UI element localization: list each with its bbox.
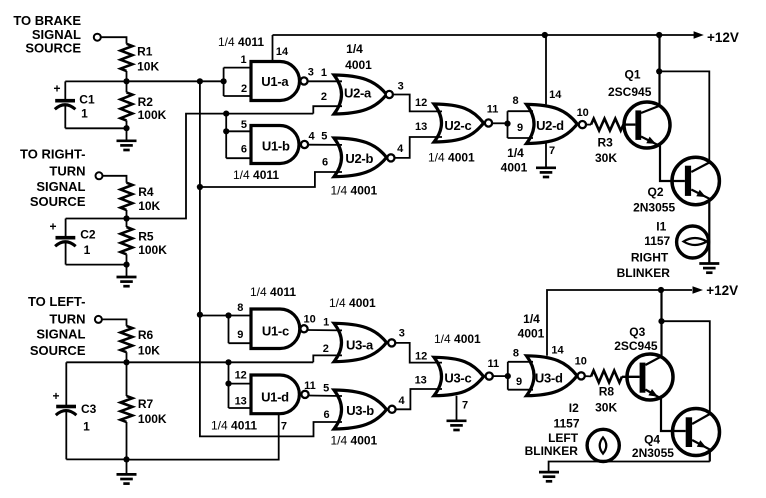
resistor R6 bbox=[121, 326, 133, 352]
svg-text:+12V: +12V bbox=[707, 30, 739, 45]
svg-text:3: 3 bbox=[308, 67, 314, 79]
label 1/4 4001 above U3-a bbox=[329, 296, 376, 310]
bubble U2-c output bbox=[485, 119, 492, 126]
wire U1-c out to U3-a bbox=[308, 329, 342, 331]
label R8 30K bbox=[595, 384, 617, 414]
lamp I1 right blinker bbox=[677, 226, 709, 258]
resistor R4 bbox=[121, 183, 133, 210]
nor gate U3-c bbox=[434, 357, 484, 395]
svg-text:14: 14 bbox=[276, 46, 289, 58]
svg-text:U2-b: U2-b bbox=[345, 151, 373, 166]
wire U3-d pin14 riser and rail bbox=[547, 290, 692, 356]
wire R5 bottom to ground bbox=[126, 254, 128, 277]
label 1/4 4011 for U1-d bbox=[211, 418, 257, 432]
lamp I2 left blinker bbox=[587, 429, 619, 461]
svg-text:5: 5 bbox=[241, 119, 247, 131]
label U3-c bbox=[444, 371, 471, 386]
node R2-C1 junction bbox=[123, 125, 129, 131]
svg-text:30K: 30K bbox=[595, 151, 617, 165]
label U3-d bbox=[535, 370, 563, 385]
label U2-a pin1 bbox=[321, 67, 327, 79]
wire brake to U2-b pin6 bbox=[200, 172, 342, 187]
wire brake terminal to R1 bbox=[101, 37, 127, 44]
svg-text:6: 6 bbox=[241, 143, 247, 155]
svg-text:12: 12 bbox=[415, 350, 427, 362]
wire U2-d out to R3 bbox=[586, 124, 591, 126]
svg-text:7: 7 bbox=[462, 399, 468, 411]
wire R2 bottom to ground bbox=[126, 121, 128, 142]
resistor R2 bbox=[121, 92, 133, 120]
ground below R2 bbox=[117, 141, 137, 150]
label U1-b pin5 bbox=[241, 119, 247, 131]
terminal brake input bbox=[94, 34, 101, 41]
svg-text:8: 8 bbox=[237, 302, 243, 314]
wire U3-c out to U3-d bbox=[493, 375, 508, 377]
bubble U3-c output bbox=[486, 373, 493, 380]
wire R1 to R2 bbox=[126, 71, 128, 92]
wire Q4 collector diag bbox=[692, 414, 710, 424]
label U1-a bbox=[261, 74, 289, 89]
svg-text:1: 1 bbox=[83, 420, 90, 434]
bubble U1-c output bbox=[300, 325, 307, 332]
svg-text:4001: 4001 bbox=[345, 58, 372, 72]
svg-text:I2: I2 bbox=[569, 401, 579, 415]
label 1/4 above U3-d bbox=[523, 312, 540, 326]
resistor R5 bbox=[121, 227, 133, 254]
arrow top +12V bbox=[694, 31, 704, 39]
node U1-d feed on left-turn net bbox=[225, 359, 231, 365]
svg-text:10K: 10K bbox=[138, 199, 160, 213]
ground below Q2 emitter bbox=[699, 264, 719, 273]
svg-text:BLINKER: BLINKER bbox=[525, 444, 579, 458]
svg-text:2: 2 bbox=[321, 91, 327, 103]
label U1-a pin2 bbox=[241, 83, 247, 95]
svg-text:6: 6 bbox=[322, 157, 328, 169]
wire C1 bottom to junction bbox=[65, 127, 126, 129]
svg-text:1: 1 bbox=[323, 317, 329, 329]
wire U3-b out to U3-c pin13 bbox=[396, 389, 442, 409]
label U3-c pin7 bbox=[462, 399, 468, 411]
svg-text:100K: 100K bbox=[138, 243, 167, 257]
svg-text:U1-b: U1-b bbox=[262, 138, 290, 153]
label C2 plus bbox=[50, 219, 57, 233]
svg-text:4001: 4001 bbox=[501, 161, 528, 175]
svg-text:14: 14 bbox=[551, 344, 564, 356]
wire R4 to R5 bbox=[126, 210, 128, 227]
label U1-c bbox=[262, 323, 289, 338]
svg-text:1/4 4011: 1/4 4011 bbox=[233, 168, 279, 182]
wire left-turn net horizontal bbox=[66, 361, 313, 363]
svg-text:1/4 4001: 1/4 4001 bbox=[428, 151, 475, 165]
nor gate U3-a bbox=[334, 323, 387, 361]
bubble U3-b output bbox=[388, 406, 395, 413]
svg-text:U1-a: U1-a bbox=[261, 74, 289, 89]
label U2-b pin4 out bbox=[397, 143, 404, 155]
label U2-c pin11 bbox=[487, 104, 499, 116]
wire emitter to ground I2 bbox=[549, 462, 710, 473]
wire Q2 emitter bbox=[691, 190, 709, 264]
svg-text:+: + bbox=[54, 82, 61, 96]
svg-text:R7: R7 bbox=[138, 397, 154, 411]
svg-text:2SC945: 2SC945 bbox=[614, 339, 658, 353]
resistor R7 bbox=[121, 396, 133, 422]
svg-text:1/4 4011: 1/4 4011 bbox=[211, 418, 257, 432]
svg-text:U3-b: U3-b bbox=[346, 403, 374, 418]
svg-text:U3-d: U3-d bbox=[535, 370, 563, 385]
node R7-C3 junction bbox=[123, 456, 129, 462]
wire collector branch to Q4 bbox=[662, 321, 710, 413]
wire left terminal to R6 bbox=[102, 319, 126, 326]
label R6 10K bbox=[138, 328, 160, 357]
svg-text:12: 12 bbox=[235, 370, 247, 382]
label U3-d pin9 bbox=[516, 376, 522, 388]
label U2-d pin14 bbox=[549, 89, 562, 101]
label U1-b pin6 bbox=[241, 143, 247, 155]
nor gate U2-c bbox=[434, 104, 484, 142]
wire brake net vertical bbox=[200, 81, 342, 436]
svg-text:13: 13 bbox=[415, 375, 427, 387]
svg-text:U2-c: U2-c bbox=[444, 118, 471, 133]
label R3 30K bbox=[595, 136, 617, 165]
resistor R3 bbox=[591, 119, 623, 131]
node U1-b feed on right-turn net bbox=[223, 111, 229, 117]
node Q3 collector branch bbox=[658, 318, 664, 324]
node U1-a input feed bbox=[221, 78, 227, 84]
label U3-a pin1 bbox=[323, 317, 329, 329]
wire C3 bottom to junction bbox=[66, 458, 126, 460]
svg-text:SOURCE: SOURCE bbox=[30, 343, 86, 358]
transistor Q2 bbox=[672, 157, 719, 204]
label U3-b bbox=[346, 403, 374, 418]
wire R7 bottom to ground bbox=[126, 422, 128, 475]
label 1/4 4011 for U1-b bbox=[233, 168, 279, 182]
label U3-d pin8 bbox=[513, 347, 519, 359]
capacitor C2 bbox=[55, 219, 76, 265]
bubble U2-b output bbox=[387, 154, 394, 161]
svg-text:9: 9 bbox=[517, 122, 523, 134]
wire Q1 emitter bbox=[641, 137, 685, 182]
label U2-b bbox=[345, 151, 373, 166]
label U2-c bbox=[444, 118, 471, 133]
wire C2 top to junction bbox=[66, 218, 127, 220]
svg-text:8: 8 bbox=[512, 95, 518, 107]
bubble U3-d output bbox=[578, 372, 585, 379]
label U2-a bbox=[344, 85, 372, 100]
label U2-c pin12 bbox=[415, 97, 427, 109]
label U2-b pin6 bbox=[322, 157, 328, 169]
label U3-c pin12 bbox=[415, 350, 427, 362]
label R1 10K bbox=[137, 45, 159, 74]
arrow Q3 emitter bbox=[648, 389, 658, 397]
svg-text:13: 13 bbox=[235, 395, 247, 407]
wire Q4 emitter bbox=[692, 440, 710, 462]
svg-text:R3: R3 bbox=[598, 136, 614, 150]
svg-text:10: 10 bbox=[575, 356, 587, 368]
nand gate U1-a bbox=[251, 62, 300, 101]
wire U1-d input bracket bbox=[229, 362, 253, 408]
node left divider junction bbox=[123, 359, 129, 365]
label U2-d pin10 bbox=[577, 107, 589, 119]
node rail-Q3 collector bbox=[658, 287, 664, 293]
arrow Q4 emitter bbox=[697, 440, 707, 448]
transistor Q1 bbox=[624, 102, 670, 148]
label R5 100K bbox=[138, 230, 167, 258]
label U1-a pin1 bbox=[240, 54, 246, 66]
svg-text:C2: C2 bbox=[80, 228, 96, 242]
svg-text:1/4 4001: 1/4 4001 bbox=[331, 434, 378, 448]
svg-text:9: 9 bbox=[237, 329, 243, 341]
ground below R7 bbox=[117, 474, 137, 483]
svg-text:C3: C3 bbox=[81, 402, 97, 416]
wire left-turn jog to U3-a pin2 bbox=[313, 355, 342, 362]
svg-text:13: 13 bbox=[415, 121, 427, 133]
svg-text:2: 2 bbox=[323, 343, 329, 355]
nor gate U3-d bbox=[527, 356, 578, 396]
svg-text:U2-d: U2-d bbox=[536, 118, 564, 133]
svg-text:1: 1 bbox=[81, 107, 88, 121]
svg-text:U1-c: U1-c bbox=[262, 323, 289, 338]
svg-text:1/4 4011: 1/4 4011 bbox=[250, 285, 296, 299]
label TO BRAKE SIGNAL SOURCE bbox=[13, 13, 81, 56]
svg-text:10K: 10K bbox=[138, 343, 160, 357]
wire U1-a input bracket bbox=[224, 68, 252, 96]
wire C2 bottom to junction bbox=[66, 264, 127, 266]
svg-text:U2-a: U2-a bbox=[344, 85, 372, 100]
svg-text:R5: R5 bbox=[138, 230, 154, 244]
wire R6 to R7 bbox=[126, 352, 128, 396]
arrow Q1 emitter bbox=[646, 137, 656, 144]
wire U1-b input bracket bbox=[226, 114, 252, 159]
label U3-c pin13 bbox=[415, 375, 427, 387]
resistor R1 bbox=[121, 44, 133, 71]
svg-text:C1: C1 bbox=[79, 92, 95, 106]
node rail-U2d pin14 bbox=[542, 32, 548, 38]
transistor Q3 bbox=[627, 354, 673, 400]
svg-text:SIGNAL: SIGNAL bbox=[36, 327, 85, 342]
label U1-c pin10 bbox=[303, 314, 315, 326]
label U2-d pin9 bbox=[517, 122, 523, 134]
label U3-a bbox=[346, 338, 374, 353]
svg-text:2N3055: 2N3055 bbox=[632, 446, 674, 460]
terminal left-turn input bbox=[95, 316, 102, 323]
label 4001 above U2-a bbox=[345, 58, 372, 72]
label C3 plus bbox=[53, 389, 60, 403]
wire U1-a pin14 to rail bbox=[272, 35, 274, 62]
svg-text:+: + bbox=[50, 219, 57, 233]
label 1/4 4001 below U2-c bbox=[428, 151, 475, 165]
wire U2-d pin14 to rail bbox=[545, 35, 547, 104]
svg-text:1157: 1157 bbox=[554, 417, 580, 431]
nand gate U1-b bbox=[251, 126, 299, 164]
svg-text:Q4: Q4 bbox=[644, 433, 660, 447]
wire U3-c pin7 to ground bbox=[456, 396, 458, 421]
resistor R8 bbox=[591, 371, 622, 383]
svg-text:1: 1 bbox=[240, 54, 246, 66]
svg-text:I1: I1 bbox=[656, 220, 666, 234]
svg-text:2SC945: 2SC945 bbox=[608, 85, 652, 99]
svg-text:+: + bbox=[53, 389, 60, 403]
label U1-c pin8 bbox=[237, 302, 243, 314]
label 1/4 4001 below U3-b bbox=[331, 434, 378, 448]
nand gate U1-d bbox=[251, 375, 299, 414]
label 1/4 4011 for U1-a bbox=[218, 35, 264, 49]
svg-text:TO RIGHT-: TO RIGHT- bbox=[20, 146, 85, 161]
svg-text:1/4 4001: 1/4 4001 bbox=[434, 332, 481, 346]
svg-text:2N3055: 2N3055 bbox=[633, 201, 675, 215]
svg-text:7: 7 bbox=[549, 145, 555, 157]
nor gate U3-b bbox=[334, 390, 387, 429]
svg-text:R4: R4 bbox=[138, 185, 154, 199]
node rail-Q1 collector bbox=[656, 32, 662, 38]
label U1-d pin13 bbox=[235, 395, 247, 407]
wire U3-d input bracket bbox=[508, 362, 533, 390]
label U1-d pin7 bbox=[281, 420, 287, 432]
wire R8 to Q3 base bbox=[622, 376, 640, 378]
label 1/4 above U2-a bbox=[346, 42, 363, 56]
svg-text:Q2: Q2 bbox=[648, 185, 664, 199]
wire U2-d input bracket bbox=[508, 111, 534, 138]
label U1-c pin9 bbox=[237, 329, 243, 341]
svg-text:1: 1 bbox=[84, 243, 91, 257]
svg-text:TURN: TURN bbox=[49, 311, 85, 326]
label U3-b pin5 bbox=[323, 382, 329, 394]
svg-text:SIGNAL: SIGNAL bbox=[32, 27, 81, 42]
node U3-d input feed bbox=[505, 373, 511, 379]
label U1-b pin4 bbox=[309, 130, 316, 142]
svg-text:TURN: TURN bbox=[49, 163, 85, 178]
wire U2-b out to U2-c pin13 bbox=[395, 137, 443, 158]
svg-text:10: 10 bbox=[303, 314, 315, 326]
label U1-d bbox=[261, 389, 289, 404]
svg-text:10K: 10K bbox=[137, 59, 159, 73]
label U3-b pin4 out bbox=[398, 395, 405, 407]
label U2-d pin8 bbox=[512, 95, 518, 107]
svg-text:BLINKER: BLINKER bbox=[617, 266, 671, 280]
svg-text:1/4 4001: 1/4 4001 bbox=[329, 296, 376, 310]
svg-text:11: 11 bbox=[304, 380, 316, 392]
label U1-b bbox=[262, 138, 290, 153]
label I1 1157 RIGHT BLINKER bbox=[617, 220, 671, 280]
bubble U2-d output bbox=[579, 121, 586, 128]
svg-text:4: 4 bbox=[397, 143, 404, 155]
wire U2-c out to U2-d bbox=[492, 122, 507, 124]
wire U1-b out to U2-b bbox=[308, 144, 342, 146]
label Q1 bbox=[608, 67, 652, 98]
label U3-c pin11 bbox=[487, 358, 499, 370]
svg-text:5: 5 bbox=[323, 382, 329, 394]
wire U2-d pin7 to ground bbox=[545, 144, 547, 169]
wire brake net horizontal bbox=[127, 80, 224, 82]
wire Q2 collector diag bbox=[691, 163, 709, 173]
bubble U1-a output bbox=[300, 77, 307, 84]
bubble U1-b output bbox=[301, 141, 308, 148]
svg-text:1/4 4011: 1/4 4011 bbox=[218, 35, 264, 49]
wire Q3 emitter bbox=[645, 390, 685, 432]
label U2-d pin7 bbox=[549, 145, 555, 157]
label Q3 bbox=[614, 325, 658, 353]
node U1-d pin12 junction bbox=[225, 381, 231, 387]
node brake-U1c branch bbox=[197, 312, 203, 318]
svg-text:11: 11 bbox=[487, 358, 499, 370]
ground below U3-c bbox=[447, 421, 467, 430]
svg-text:14: 14 bbox=[549, 89, 562, 101]
label U3-d pin14 bbox=[551, 344, 564, 356]
wire U1-d pin7 to ground wire bbox=[127, 414, 279, 460]
wire R3 to Q1 base bbox=[623, 123, 635, 125]
svg-text:U3-c: U3-c bbox=[444, 371, 471, 386]
svg-text:SIGNAL: SIGNAL bbox=[36, 179, 85, 194]
node brake net top bbox=[197, 78, 203, 84]
svg-text:1/4: 1/4 bbox=[507, 146, 524, 160]
wire U3-a out to U3-c pin12 bbox=[395, 343, 442, 363]
nor gate U2-a bbox=[334, 75, 387, 114]
label TO LEFT-TURN SIGNAL SOURCE bbox=[28, 294, 86, 358]
svg-text:R1: R1 bbox=[137, 45, 153, 59]
label U2-d bbox=[536, 118, 564, 133]
wire brake to U1-c bbox=[200, 315, 229, 317]
svg-text:10: 10 bbox=[577, 107, 589, 119]
wire U1-a out to U2-a bbox=[308, 80, 342, 82]
arrow bottom +12V bbox=[693, 286, 704, 294]
svg-text:3: 3 bbox=[398, 81, 404, 93]
svg-text:100K: 100K bbox=[138, 412, 167, 426]
svg-text:SOURCE: SOURCE bbox=[25, 41, 81, 56]
label 1/4 4011 for U1-c bbox=[250, 285, 296, 299]
label U1-a pin14 bbox=[276, 46, 289, 58]
svg-text:TO BRAKE: TO BRAKE bbox=[13, 13, 81, 28]
svg-text:1/4 4001: 1/4 4001 bbox=[331, 184, 378, 198]
svg-text:11: 11 bbox=[487, 104, 499, 116]
label TO RIGHT-TURN SIGNAL SOURCE bbox=[20, 146, 86, 209]
label C1 value bbox=[79, 92, 95, 120]
svg-text:2: 2 bbox=[241, 83, 247, 95]
capacitor C1 bbox=[55, 81, 76, 128]
label U3-b pin6 bbox=[324, 409, 330, 421]
label R4 10K bbox=[138, 185, 160, 213]
arrow Q2 emitter bbox=[696, 190, 706, 197]
bubble U2-a output bbox=[386, 91, 393, 98]
svg-text:12: 12 bbox=[415, 97, 427, 109]
label U2-a pin2 bbox=[321, 91, 327, 103]
wire U1-c input bracket bbox=[229, 316, 253, 344]
svg-text:6: 6 bbox=[324, 409, 330, 421]
label top +12V bbox=[707, 30, 739, 45]
wire right terminal to R4 bbox=[103, 176, 127, 183]
svg-text:1157: 1157 bbox=[644, 234, 670, 248]
label 1/4 4001 below U2-b bbox=[331, 184, 378, 198]
wire right-turn jog to U2-a pin2 bbox=[313, 106, 342, 113]
svg-text:4: 4 bbox=[309, 130, 316, 142]
bubble U1-d output bbox=[301, 391, 308, 398]
ground below I2 wire bbox=[539, 472, 559, 481]
label U1-a pin3 bbox=[308, 67, 314, 79]
svg-text:4001: 4001 bbox=[518, 327, 545, 341]
label I2 1157 LEFT BLINKER bbox=[525, 401, 580, 458]
svg-text:5: 5 bbox=[321, 131, 327, 143]
svg-text:TO LEFT-: TO LEFT- bbox=[28, 294, 86, 309]
svg-text:SOURCE: SOURCE bbox=[30, 194, 86, 209]
nor gate U2-d bbox=[527, 104, 578, 143]
label R2 100K bbox=[138, 95, 167, 122]
wire Q1 collector bbox=[641, 35, 660, 113]
svg-text:Q1: Q1 bbox=[625, 67, 641, 81]
label Q2 bbox=[633, 185, 675, 214]
svg-text:7: 7 bbox=[281, 420, 287, 432]
svg-text:1/4: 1/4 bbox=[523, 312, 540, 326]
svg-text:4: 4 bbox=[398, 395, 405, 407]
wire Q3 collector bbox=[645, 290, 661, 365]
svg-text:9: 9 bbox=[516, 376, 522, 388]
